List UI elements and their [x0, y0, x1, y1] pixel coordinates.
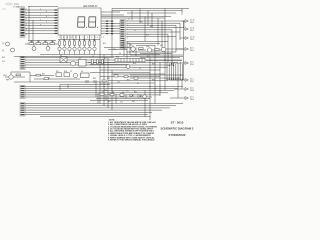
- wire resistor row bus bottom: [40, 54, 160, 56]
- wire bus cluster verticals right: [167, 62, 182, 80]
- diode D3: [110, 93, 114, 95]
- resistor R15: [97, 60, 99, 64]
- wire verticals from CN2 lower pins: [124, 39, 136, 58]
- resistor R44: [114, 75, 118, 77]
- wire bundle CN5 bottom: [25, 104, 183, 117]
- connector CN3 pins: [21, 57, 25, 69]
- transistor Q12: [131, 47, 135, 51]
- svg-text:TO MAIN PCB: TO MAIN PCB: [13, 5, 25, 8]
- resistor R14: [92, 60, 94, 64]
- svg-text:C4: C4: [119, 53, 121, 55]
- connector arrow J7: [182, 88, 188, 91]
- display digit DS2: [89, 17, 96, 27]
- capacitor C1: [86, 80, 88, 83]
- connector arrow J4: [176, 48, 188, 51]
- transistor Q4: [46, 47, 50, 51]
- resistor R4: [50, 43, 55, 45]
- svg-text:U3: U3: [81, 71, 83, 73]
- transistor Q18: [9, 75, 13, 79]
- svg-text:Q12: Q12: [129, 45, 132, 47]
- svg-text:R7: R7: [73, 40, 75, 42]
- wire mid extras: [14, 61, 183, 104]
- connector CN1 outline: [20, 8, 25, 38]
- capacitor C2: [94, 80, 96, 83]
- svg-text:R35: R35: [93, 78, 96, 80]
- bridge D1: [60, 57, 67, 63]
- wire top rail left: [28, 6, 58, 8]
- svg-text:C11: C11: [126, 90, 129, 92]
- svg-text:R42: R42: [132, 101, 135, 103]
- svg-text:PIN 1: PIN 1: [190, 50, 194, 52]
- transistor Q3: [32, 47, 36, 51]
- connector arrow J3: [180, 37, 188, 40]
- wire mid row connections y44: [25, 43, 58, 45]
- svg-text:DL-7: DL-7: [190, 79, 194, 81]
- svg-text:R27: R27: [104, 58, 107, 60]
- svg-text:R9: R9: [83, 40, 85, 42]
- resistor network RN1: [115, 58, 145, 62]
- svg-text:PIN 2: PIN 2: [190, 39, 194, 41]
- connector arrow J5: [172, 62, 188, 65]
- svg-text:R25: R25: [103, 43, 106, 45]
- svg-text:Q18: Q18: [3, 75, 6, 77]
- svg-text:C10: C10: [117, 82, 120, 84]
- svg-text:ST - 5010: ST - 5010: [171, 120, 184, 124]
- transistor Q14: [161, 47, 165, 51]
- resistor R19: [16, 74, 20, 76]
- diode D4: [120, 94, 124, 96]
- svg-text:DL-10: DL-10: [190, 37, 194, 39]
- wire bundle CN4: [25, 87, 183, 98]
- svg-text:R29: R29: [152, 63, 155, 65]
- connector CN4 outline: [20, 85, 25, 98]
- svg-text:C9: C9: [70, 71, 72, 73]
- resistor R16: [102, 60, 104, 64]
- resistor R45: [124, 76, 128, 78]
- wire display right side outputs: [101, 11, 182, 34]
- notes block: [108, 120, 158, 142]
- svg-text:1 2 3 4 5 6 7 8 9 10 11: 1 2 3 4 5 6 7 8 9 10 11: [59, 37, 106, 39]
- wire drops from display bottom: [61, 35, 95, 41]
- connector CN2 outline: [120, 20, 126, 49]
- scan smudge top-left: [2, 3, 13, 11]
- connector arrow J6: [183, 79, 188, 82]
- svg-text:C14: C14: [2, 61, 5, 63]
- transistor Q16: [126, 65, 130, 69]
- resistor R17: [56, 73, 62, 77]
- transistor Q13: [147, 48, 151, 52]
- resistor R12: [139, 48, 144, 50]
- small scattered labels: [2, 40, 163, 94]
- wire right-area verticals top: [165, 9, 184, 91]
- svg-text:U2: U2: [79, 58, 81, 60]
- resistor R3: [43, 43, 48, 45]
- connector CN5 pins: [21, 103, 25, 115]
- svg-text:PIN 8: PIN 8: [190, 90, 194, 92]
- svg-text:PNP: PNP: [6, 80, 9, 82]
- resistor R20: [102, 80, 106, 82]
- svg-text:STUDIO/5010: STUDIO/5010: [169, 133, 186, 137]
- resistor R2: [36, 43, 41, 45]
- wire long right vertical: [183, 21, 185, 80]
- svg-text:R41: R41: [108, 101, 111, 103]
- svg-text:Q20: Q20: [147, 56, 150, 58]
- svg-text:D3: D3: [112, 92, 114, 94]
- svg-text:C8: C8: [48, 77, 50, 79]
- svg-text:R18: R18: [64, 71, 67, 73]
- connector CN2 vertical strip: [121, 20, 125, 48]
- svg-text:R33: R33: [146, 35, 149, 37]
- svg-text:R38: R38: [152, 79, 155, 81]
- connector CN3 outline: [20, 56, 25, 69]
- wire bundle CN3 mid: [25, 58, 182, 68]
- diode D6: [138, 94, 141, 97]
- wire bundle CN2 to right: [126, 21, 184, 36]
- wire cluster top rail y40.5: [28, 40, 56, 42]
- wire right-half mid horizontals: [104, 9, 176, 54]
- wire right mid components y48-58: [130, 49, 183, 58]
- svg-text:C5: C5: [92, 56, 94, 58]
- display digit DS1: [78, 17, 85, 27]
- svg-text:R40: R40: [134, 92, 137, 94]
- svg-text:D1: D1: [60, 55, 62, 57]
- svg-text:DL-11: DL-11: [190, 28, 194, 30]
- svg-text:11: 11: [127, 42, 129, 44]
- svg-text:R32: R32: [150, 26, 153, 28]
- svg-text:PIN 3: PIN 3: [190, 64, 194, 66]
- svg-text:R31: R31: [140, 22, 143, 24]
- svg-text:PIN 5: PIN 5: [190, 81, 194, 83]
- svg-text:9. REFER TO THE SERVICE MANUAL: 9. REFER TO THE SERVICE MANUAL FOR DETAI…: [108, 139, 155, 142]
- svg-text:R17: R17: [56, 71, 59, 73]
- svg-text:PIN 4: PIN 4: [190, 22, 194, 24]
- title block text: [161, 120, 194, 136]
- wire top rail right: [112, 8, 189, 10]
- svg-text:R21: R21: [30, 41, 33, 43]
- digit driver transistor row Q5-Q11 with resistors R5-R11: [58, 40, 96, 55]
- svg-text:R39: R39: [104, 90, 107, 92]
- svg-text:PIN 6: PIN 6: [190, 99, 194, 101]
- junction dots bus cluster: [100, 59, 183, 91]
- svg-text:D7: D7: [137, 83, 139, 85]
- svg-text:R34: R34: [42, 73, 45, 75]
- pad grid right of display: [106, 21, 113, 35]
- svg-text:R43: R43: [2, 57, 5, 59]
- svg-text:Q13: Q13: [146, 46, 149, 48]
- svg-text:C2: C2: [134, 30, 136, 32]
- svg-text:DL-12: DL-12: [190, 20, 194, 22]
- svg-text:13: 13: [127, 47, 129, 49]
- resistor R48: [44, 78, 48, 80]
- svg-text:DL-5: DL-5: [190, 97, 194, 99]
- svg-text:Q1: Q1: [2, 43, 4, 45]
- svg-text:C1: C1: [128, 19, 130, 21]
- svg-text:R22: R22: [37, 41, 40, 43]
- svg-text:R36: R36: [107, 78, 110, 80]
- resistor R46: [134, 77, 138, 79]
- svg-text:LED DISPLAY: LED DISPLAY: [83, 5, 98, 8]
- svg-text:R11: R11: [93, 40, 96, 42]
- svg-text:DL-8: DL-8: [190, 62, 194, 64]
- display unit U1 box: [58, 8, 101, 35]
- svg-text:R5: R5: [63, 40, 65, 42]
- transistor Q17: [73, 73, 77, 77]
- svg-text:R26: R26: [113, 49, 116, 51]
- svg-text:R24: R24: [51, 41, 54, 43]
- display left pin pads: [55, 9, 58, 34]
- svg-text:Q14: Q14: [160, 45, 163, 47]
- wire vertical drop from top rail: [28, 7, 30, 42]
- connector arrow J8: [182, 97, 188, 100]
- svg-text:DL-6: DL-6: [190, 88, 194, 90]
- connector CN1 pins: [21, 9, 25, 37]
- wire vertical x33: [32, 20, 34, 44]
- svg-text:PIN 7: PIN 7: [190, 30, 194, 32]
- svg-text:C12: C12: [120, 102, 123, 104]
- svg-text:R37: R37: [127, 79, 130, 81]
- resistor R47: [36, 74, 40, 76]
- resistor R13: [155, 49, 160, 51]
- wire bundle CN1 to display: [25, 10, 58, 33]
- transistor Q15: [71, 61, 76, 66]
- svg-text:R23: R23: [44, 41, 47, 43]
- svg-text:SCHEMATIC DIAGRAM 2: SCHEMATIC DIAGRAM 2: [161, 127, 194, 131]
- wire resistor row bus top: [58, 39, 100, 41]
- diode D5: [130, 94, 133, 97]
- diode D2: [100, 93, 104, 95]
- wire lower-left transistor links: [5, 72, 68, 90]
- transistor Q1: [6, 42, 10, 46]
- svg-text:RN1: RN1: [116, 56, 119, 58]
- svg-text:R28: R28: [133, 63, 136, 65]
- wire right lower links: [170, 80, 183, 98]
- transistor Q2: [11, 48, 15, 52]
- display decimal points: [86, 27, 98, 28]
- wire cluster stubs: [31, 41, 52, 47]
- wire center verticals: [96, 9, 160, 121]
- resistor R1: [29, 43, 34, 45]
- connector arrow J1: [182, 20, 188, 23]
- transistor Q19: [143, 95, 147, 99]
- resistor R18: [64, 73, 70, 77]
- svg-text:Q2: Q2: [2, 50, 4, 52]
- svg-text:DL-9: DL-9: [190, 48, 194, 50]
- connector CN5 outline: [20, 103, 25, 116]
- svg-text:C6: C6: [139, 68, 141, 70]
- IC U3: [81, 73, 90, 78]
- connector CN4 pins: [21, 86, 25, 98]
- scattered small labels extra: [2, 8, 155, 103]
- IC U2: [79, 60, 87, 67]
- svg-text:D4: D4: [122, 92, 124, 94]
- connector arrow J2: [184, 28, 188, 31]
